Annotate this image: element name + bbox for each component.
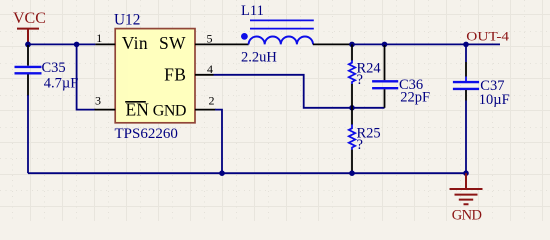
svg-text:GND: GND xyxy=(153,103,186,120)
wire Vin net top xyxy=(28,43,95,45)
svg-text:FB: FB xyxy=(164,65,186,85)
svg-text:L11: L11 xyxy=(241,3,264,19)
svg-text:OUT-4: OUT-4 xyxy=(466,28,509,43)
wire C37 bottom xyxy=(465,101,467,174)
svg-text:C35: C35 xyxy=(42,60,66,76)
svg-text:3: 3 xyxy=(95,94,101,108)
pin 3 xyxy=(95,109,116,111)
svg-text:Vin: Vin xyxy=(122,33,148,53)
wire FB node to C36 bottom xyxy=(352,107,385,109)
power port VCC xyxy=(13,10,46,44)
power port GND xyxy=(450,173,483,223)
svg-text:2: 2 xyxy=(209,94,215,108)
pin 4 xyxy=(195,74,214,76)
svg-text:?: ? xyxy=(357,72,363,88)
capacitor C37 xyxy=(453,44,510,108)
wire FB net xyxy=(214,75,353,108)
junction dot EN node xyxy=(74,42,80,48)
junction dot VCC node xyxy=(25,42,31,48)
svg-text:GND: GND xyxy=(452,207,482,221)
resistor R24 xyxy=(349,44,382,107)
svg-text:?: ? xyxy=(357,137,363,153)
resistor R25 xyxy=(349,108,381,173)
wire EN vertical xyxy=(77,44,96,109)
svg-text:SW: SW xyxy=(159,33,186,53)
wire inductor to R24 node xyxy=(313,43,352,45)
pin 1 xyxy=(95,43,115,45)
junction dot C37 top xyxy=(463,42,469,48)
svg-text:TPS62260: TPS62260 xyxy=(115,126,178,142)
wire C35 to bottom rail xyxy=(27,95,29,173)
junction dot R24 top xyxy=(349,42,355,48)
svg-text:5: 5 xyxy=(207,31,213,45)
wire bottom rail xyxy=(28,172,466,174)
junction dot GND rail xyxy=(219,170,225,176)
wire pin2 GND to bottom rail xyxy=(215,110,222,174)
wire SW rail to OUT xyxy=(352,43,500,45)
svg-text:VCC: VCC xyxy=(13,10,46,27)
junction dot ground node xyxy=(463,170,469,176)
pin 2 xyxy=(195,109,216,111)
junction dot FB node xyxy=(349,105,355,111)
svg-text:4.7µF: 4.7µF xyxy=(44,76,79,92)
svg-text:U12: U12 xyxy=(114,11,140,28)
pin 5 xyxy=(195,43,249,45)
inductor L11 xyxy=(241,3,314,66)
svg-text:1: 1 xyxy=(96,31,102,45)
svg-text:22pF: 22pF xyxy=(400,90,430,106)
junction dot R25 bottom xyxy=(349,170,355,176)
svg-text:4: 4 xyxy=(207,62,213,76)
svg-text:10µF: 10µF xyxy=(479,92,510,108)
junction dot C36 top xyxy=(382,42,388,48)
svg-text:2.2uH: 2.2uH xyxy=(241,50,277,66)
IC U12 body xyxy=(114,11,195,142)
capacitor C35 xyxy=(15,45,79,96)
capacitor C36 xyxy=(372,45,430,108)
